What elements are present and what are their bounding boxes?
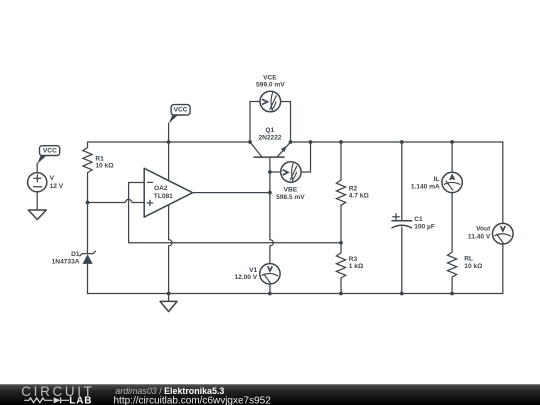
voltage source V <box>28 163 47 210</box>
op-amp plus sign <box>147 200 152 205</box>
svg-text:VBE: VBE <box>284 186 298 193</box>
junction base output node <box>268 191 272 195</box>
svg-text:1.140 mA: 1.140 mA <box>411 184 440 191</box>
wire bottom ground rail <box>88 293 503 295</box>
wire op-amp plus input with hop <box>88 199 144 202</box>
svg-text:http://circuitlab.com/c6wvjgxe: http://circuitlab.com/c6wvjgxe7s952 <box>114 395 272 405</box>
wire V source top <box>36 163 38 172</box>
op-amp U1 OA2 TL081 <box>144 168 192 217</box>
svg-text:VCC: VCC <box>174 107 188 114</box>
VCC flag at op-amp supply <box>169 105 190 124</box>
transistor Q1 <box>250 142 291 157</box>
junction top rail at IL <box>450 140 454 144</box>
resistor RL <box>448 252 457 277</box>
junction top rail at collector <box>248 140 252 144</box>
logo schematic glyph: resistor and diode <box>24 397 69 403</box>
voltmeter Vout <box>493 223 514 244</box>
resistor R3 <box>336 253 345 278</box>
VCC flag at V source <box>37 146 59 164</box>
wire VCE probe left riser <box>250 102 260 143</box>
svg-text:12 V: 12 V <box>50 183 64 190</box>
junction top rail at VBE riser <box>309 140 313 144</box>
wire top rail left (collector net) <box>88 141 251 143</box>
svg-text:VCC: VCC <box>43 147 57 154</box>
wire VBE probe left <box>270 171 281 173</box>
svg-text:R1: R1 <box>95 155 104 162</box>
voltmeter probe VBE <box>281 162 301 182</box>
svg-text:R2: R2 <box>349 186 358 193</box>
wire IL / RL branch <box>451 142 453 294</box>
svg-text:599.0 mV: 599.0 mV <box>256 82 285 89</box>
junction bottom rail ground <box>167 292 171 296</box>
wire C1 branch <box>401 142 403 294</box>
wire R3 branch <box>340 243 342 294</box>
voltmeter V1 <box>260 264 280 284</box>
Q1 emitter arrow <box>281 146 287 152</box>
wire left column R1/D1 branch <box>87 142 89 294</box>
svg-text:RL: RL <box>464 255 473 262</box>
svg-text:VCE: VCE <box>263 75 277 82</box>
junction bottom rail RL <box>450 292 454 296</box>
zener diode D1 <box>80 251 96 264</box>
wire op-amp minus input stub <box>129 182 144 184</box>
junction top rail at R2 <box>339 140 343 144</box>
svg-text:R3: R3 <box>349 256 358 263</box>
svg-text:10 kΩ: 10 kΩ <box>95 163 114 170</box>
wire feedback horizontal to divider <box>129 242 341 244</box>
svg-text:11.40 V: 11.40 V <box>468 233 491 240</box>
Q1 emitter lead <box>277 142 291 157</box>
svg-text:4.7 kΩ: 4.7 kΩ <box>349 193 370 200</box>
wire Q1 base lead down <box>269 157 271 193</box>
capacitor C1 <box>392 220 412 222</box>
svg-text:LAB: LAB <box>69 396 92 405</box>
Q1 base bar <box>254 156 284 158</box>
wire op-amp output <box>193 192 270 194</box>
ammeter IL <box>442 172 462 192</box>
svg-text:10 kΩ: 10 kΩ <box>464 263 483 270</box>
junction top rail at emitter <box>289 140 293 144</box>
wire base node to V1 meter with hop <box>270 193 273 294</box>
C1 plus polarity mark <box>393 214 399 220</box>
svg-text:12.00 V: 12.00 V <box>234 274 257 281</box>
junction feedback divider node <box>339 241 343 245</box>
junction bottom rail V1 <box>268 292 272 296</box>
svg-text:C1: C1 <box>414 216 423 223</box>
junction R1 plus-input node <box>86 201 90 205</box>
svg-text:IL: IL <box>434 176 440 183</box>
junction bottom rail R3 <box>339 292 343 296</box>
svg-text:100 µF: 100 µF <box>414 224 435 231</box>
Q1 collector lead <box>250 142 262 157</box>
wire VBE probe right riser <box>301 142 310 172</box>
junction base VBE node <box>268 170 272 174</box>
svg-text:598.5 mV: 598.5 mV <box>276 194 305 201</box>
wire VCE probe right riser <box>281 102 291 143</box>
svg-text:TL081: TL081 <box>154 193 173 200</box>
wire feedback vertical <box>128 183 130 243</box>
voltmeter probe VCE <box>260 91 281 112</box>
ground at bottom rail <box>160 294 177 312</box>
svg-text:V: V <box>50 175 55 182</box>
wire V source bottom <box>36 192 38 210</box>
svg-text:1 kΩ: 1 kΩ <box>349 263 364 270</box>
resistor R1 <box>83 147 92 172</box>
svg-text:V1: V1 <box>249 267 257 274</box>
op-amp minus sign <box>148 181 153 183</box>
svg-text:OA2: OA2 <box>154 185 168 192</box>
svg-text:Vout: Vout <box>476 226 491 233</box>
junction bottom rail C1 <box>400 292 404 296</box>
ground under V source <box>28 210 46 220</box>
footer bar <box>0 384 540 405</box>
svg-text:Q1: Q1 <box>265 127 274 134</box>
junction top rail at C1 <box>400 140 404 144</box>
wire right side drop to Vout <box>502 142 504 294</box>
wire R2 branch <box>340 142 342 243</box>
junction top rail at VCC line <box>167 140 171 144</box>
svg-text:D1: D1 <box>71 251 80 258</box>
resistor R2 <box>336 180 345 205</box>
svg-text:2N2222: 2N2222 <box>258 134 281 141</box>
wire VCC supply line through op-amp with hop <box>169 123 172 293</box>
wire top rail right (emitter net) <box>291 141 503 143</box>
svg-text:1N4733A: 1N4733A <box>52 259 80 266</box>
